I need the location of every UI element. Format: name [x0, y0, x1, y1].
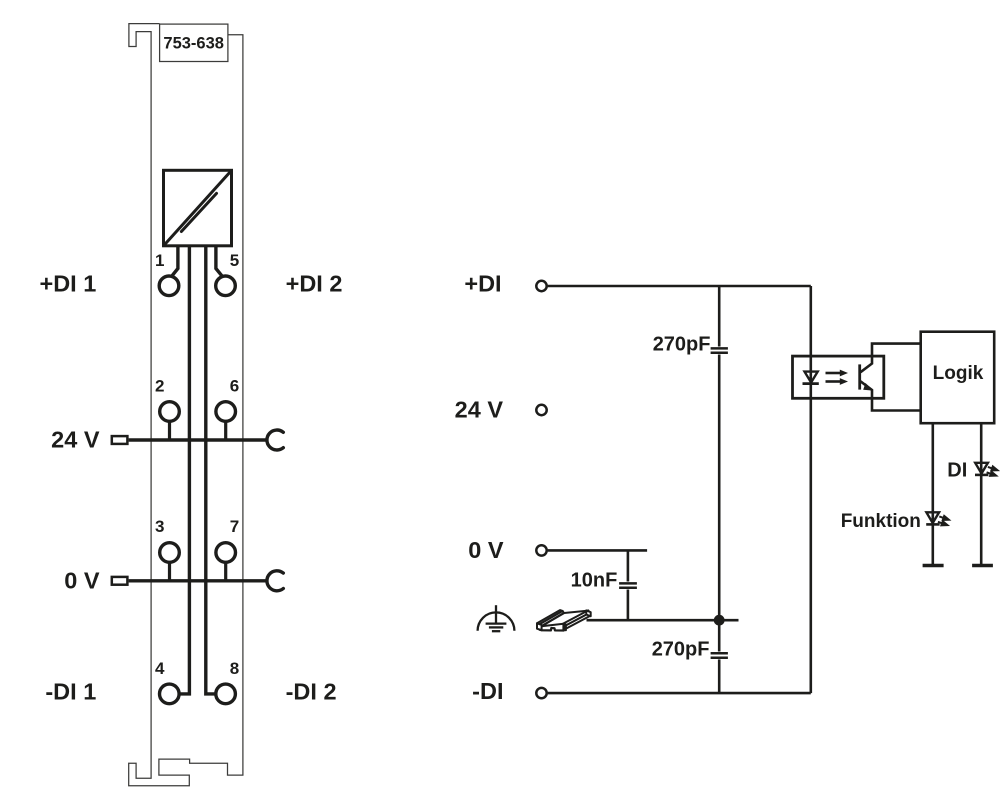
vertical wire +DI to -DI through optocoupler	[809, 286, 812, 693]
svg-text:753-638: 753-638	[163, 34, 224, 52]
pin 1 circle	[159, 276, 179, 296]
wire pin1 from square	[171, 246, 178, 277]
rail left flange front face	[537, 623, 542, 630]
capacitor C1 270pF branch upper wire	[718, 286, 721, 347]
Funktion LED light arrows	[938, 516, 949, 525]
DI LED cathode bar	[975, 474, 988, 477]
module outline 753-638	[129, 24, 243, 786]
rail right flange top band	[563, 610, 589, 626]
isolation square U1	[164, 170, 232, 246]
Funktion LED cathode bar	[926, 523, 939, 526]
junction node dot	[714, 615, 725, 626]
+DI wire	[548, 285, 811, 288]
svg-text:10nF: 10nF	[571, 569, 618, 591]
phototransistor collector wire to Logik	[861, 344, 921, 373]
24V terminal circle	[536, 405, 546, 415]
capacitor C1 270pF plates	[711, 347, 728, 350]
rail right flange lower band	[565, 613, 591, 629]
isolation diagonal 2	[181, 193, 216, 231]
pin2 stem	[168, 420, 171, 440]
pin6 stem	[224, 420, 227, 440]
label box 753-638	[160, 24, 228, 61]
0V terminal circle	[536, 545, 546, 555]
rail left flange inner wall	[540, 611, 564, 626]
+DI terminal circle	[536, 281, 546, 291]
24V socket arc	[267, 430, 283, 450]
pin7 stem	[224, 561, 227, 581]
svg-text:270pF: 270pF	[652, 639, 710, 661]
pin 8 circle	[216, 684, 236, 704]
wire Logik to DI LED	[980, 423, 983, 565]
-DI terminal circle	[536, 688, 546, 698]
opto light arrow lower	[826, 380, 841, 383]
wire pin4 long	[180, 246, 190, 694]
rail channel floor	[541, 611, 588, 627]
ground bus wire	[587, 619, 739, 622]
svg-text:Logik: Logik	[933, 363, 984, 384]
DIN rail symbol	[537, 610, 591, 630]
svg-text:270pF: 270pF	[653, 334, 711, 356]
pin3 stem	[168, 561, 171, 581]
opto LED triangle	[805, 372, 818, 383]
capacitor C2 270pF plates	[711, 652, 728, 655]
DI LED light arrows	[987, 466, 998, 475]
chassis ground symbol	[478, 605, 515, 631]
Funktion LED triangle	[926, 512, 939, 523]
svg-text:+DI 1: +DI 1	[39, 270, 96, 296]
svg-text:+DI 2: +DI 2	[286, 270, 343, 296]
svg-text:24 V: 24 V	[51, 427, 100, 453]
0V wire	[548, 549, 648, 552]
svg-text:+DI: +DI	[464, 270, 501, 296]
svg-text:4: 4	[155, 659, 165, 678]
pin 3 circle	[160, 543, 180, 563]
wire pin8 long	[206, 246, 216, 694]
wire C2 to -DI	[718, 659, 721, 693]
pin 7 circle	[216, 543, 236, 563]
DI LED triangle	[975, 463, 988, 474]
0V connector box	[112, 577, 128, 585]
phototransistor Q1 base bar	[858, 364, 861, 389]
0V socket arc	[267, 571, 283, 591]
svg-text:-DI 2: -DI 2	[286, 678, 337, 704]
pin 2 circle	[160, 402, 180, 422]
capacitor C3 10nF branch wire	[627, 550, 630, 581]
svg-text:6: 6	[230, 376, 239, 395]
24V connector box	[112, 436, 128, 444]
svg-text:0 V: 0 V	[468, 537, 504, 563]
svg-text:DI: DI	[947, 460, 967, 482]
rail bottom front edge	[539, 628, 565, 631]
capacitor C2 270pF lower wire	[718, 620, 721, 651]
wire C3 to ground bus	[627, 590, 630, 621]
24V bus wire	[129, 438, 267, 441]
rail left flange top face	[537, 610, 563, 624]
svg-text:0 V: 0 V	[64, 567, 100, 593]
svg-text:8: 8	[230, 659, 239, 678]
opto LED cathode bar	[803, 382, 819, 385]
emitter arrow head	[863, 383, 873, 391]
pin 5 circle	[216, 276, 236, 296]
phototransistor emitter wire to Logik	[861, 381, 921, 410]
svg-text:-DI: -DI	[472, 678, 503, 704]
rail right end cap	[586, 610, 590, 616]
svg-text:Funktion: Funktion	[841, 511, 921, 532]
svg-text:-DI 1: -DI 1	[45, 678, 96, 704]
svg-text:7: 7	[230, 517, 239, 536]
wire C1 to junction	[718, 355, 721, 621]
wire Logik to Funktion LED	[931, 423, 934, 565]
pin 4 circle	[160, 684, 180, 704]
svg-text:3: 3	[155, 517, 164, 536]
rail right flange front face	[563, 624, 566, 631]
svg-text:5: 5	[230, 251, 239, 270]
-DI wire	[548, 692, 811, 695]
terminal bar right	[972, 564, 993, 568]
svg-text:2: 2	[155, 376, 164, 395]
svg-text:24 V: 24 V	[455, 397, 504, 423]
opto light arrow upper	[826, 372, 841, 375]
0V bus wire	[129, 579, 267, 582]
Logik box	[921, 332, 995, 424]
capacitor C3 10nF plates	[619, 582, 637, 585]
terminal bar left	[923, 564, 944, 568]
svg-text:1: 1	[155, 251, 164, 270]
wire pin5 from square	[216, 246, 223, 277]
isolation diagonal 1	[164, 171, 231, 246]
pin 6 circle	[216, 402, 236, 422]
optocoupler box U2	[793, 356, 884, 398]
